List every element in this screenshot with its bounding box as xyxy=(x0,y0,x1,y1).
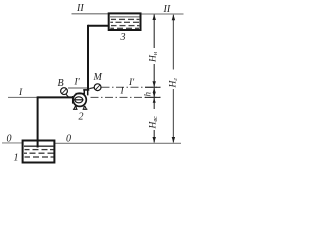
svg-text:II: II xyxy=(163,4,171,15)
svg-text:1: 1 xyxy=(14,153,19,164)
svg-text:0: 0 xyxy=(66,134,71,145)
svg-text:B: B xyxy=(58,78,64,89)
svg-text:I': I' xyxy=(128,78,135,88)
svg-text:0: 0 xyxy=(7,134,12,145)
svg-text:h: h xyxy=(143,92,153,97)
svg-text:M: M xyxy=(93,72,103,83)
svg-text:I': I' xyxy=(74,78,81,88)
svg-text:3: 3 xyxy=(120,32,126,43)
svg-text:2: 2 xyxy=(79,112,84,123)
svg-text:II: II xyxy=(76,3,84,14)
